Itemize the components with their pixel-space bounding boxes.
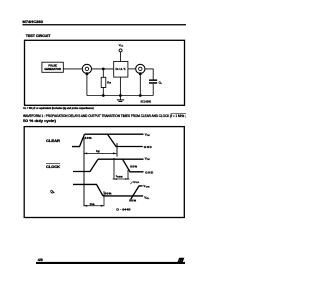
wire output connector to capacitor CL <box>145 69 153 80</box>
trem measurement base line <box>113 178 130 180</box>
rail junction at D.U.T. <box>119 94 122 97</box>
svg-text:TEST CIRCUIT: TEST CIRCUIT <box>26 34 52 38</box>
input coax connector J1 <box>82 64 91 73</box>
trem measurement left vertical <box>113 158 115 180</box>
resistor RG <box>101 77 106 87</box>
wire output connector shield to rail <box>139 74 141 96</box>
CLOCK trace <box>73 159 144 172</box>
output coax connector J2 <box>136 64 145 73</box>
wire input connector shield to rail <box>86 74 88 96</box>
svg-text:50%: 50% <box>129 199 136 203</box>
svg-text:50 % duty cycle): 50 % duty cycle) <box>23 119 56 123</box>
svg-text:CLEAR: CLEAR <box>46 139 61 143</box>
svg-text:CL = 50 pF or equivalent (incl: CL = 50 pF or equivalent (includes jig a… <box>23 106 94 110</box>
wire resistor RG to ground rail <box>102 88 104 96</box>
input connector shield junction <box>85 72 88 75</box>
ground rail <box>87 95 153 97</box>
ST logo <box>177 258 184 263</box>
svg-text:GND: GND <box>144 145 153 149</box>
svg-text:50%: 50% <box>105 192 112 196</box>
wire capacitor CL to ground rail <box>152 84 154 96</box>
svg-text:D - 9448: D - 9448 <box>116 208 131 212</box>
trem measurement right vertical <box>127 170 129 180</box>
tW measurement line <box>84 152 116 154</box>
svg-text:4/8: 4/8 <box>38 258 43 262</box>
output connector shield junction <box>139 72 142 75</box>
tW measurement verticals <box>84 138 117 207</box>
figure 1 frame <box>25 40 185 105</box>
rail junction at RG <box>102 94 105 97</box>
ground symbol <box>117 96 124 102</box>
node A junction <box>102 68 105 71</box>
wire D.U.T. to output connector <box>128 68 136 70</box>
capacitor CL <box>149 79 157 83</box>
wire input connector to node A <box>92 68 114 70</box>
svg-text:PULSE: PULSE <box>48 63 57 67</box>
rail junction at output shield <box>139 94 142 97</box>
svg-text:50%: 50% <box>130 164 137 168</box>
wire node A to resistor RG <box>102 69 104 77</box>
svg-text:SC14380: SC14380 <box>141 100 152 104</box>
tPHL measurement line <box>84 205 104 207</box>
paragraph line 1 overline accent <box>171 113 187 115</box>
tPHL right vertical <box>103 191 105 206</box>
svg-text:M74HC393: M74HC393 <box>22 20 43 24</box>
QA trace <box>73 184 143 199</box>
figure 2 frame <box>24 127 184 218</box>
svg-text:WAVEFORM 1 : PROPAGATION DELAY: WAVEFORM 1 : PROPAGATION DELAYS AND OUTP… <box>23 114 186 118</box>
wire D.U.T. to ground rail <box>119 77 121 95</box>
wire VCC terminal to D.U.T. <box>120 52 122 62</box>
pulse generator box <box>42 62 63 72</box>
svg-text:CLOCK: CLOCK <box>46 165 61 169</box>
VCC terminal circle <box>119 49 122 52</box>
CLEAR trace <box>72 134 144 146</box>
svg-text:GND: GND <box>145 170 154 174</box>
svg-text:50%: 50% <box>85 136 92 140</box>
svg-text:D.U.T.: D.U.T. <box>116 68 127 71</box>
D.U.T. box U1 <box>114 61 128 77</box>
footer rule <box>36 262 185 264</box>
header rule <box>22 24 186 25</box>
wire pulse generator to input connector <box>63 68 82 70</box>
svg-text:GENERATOR: GENERATOR <box>44 67 61 71</box>
